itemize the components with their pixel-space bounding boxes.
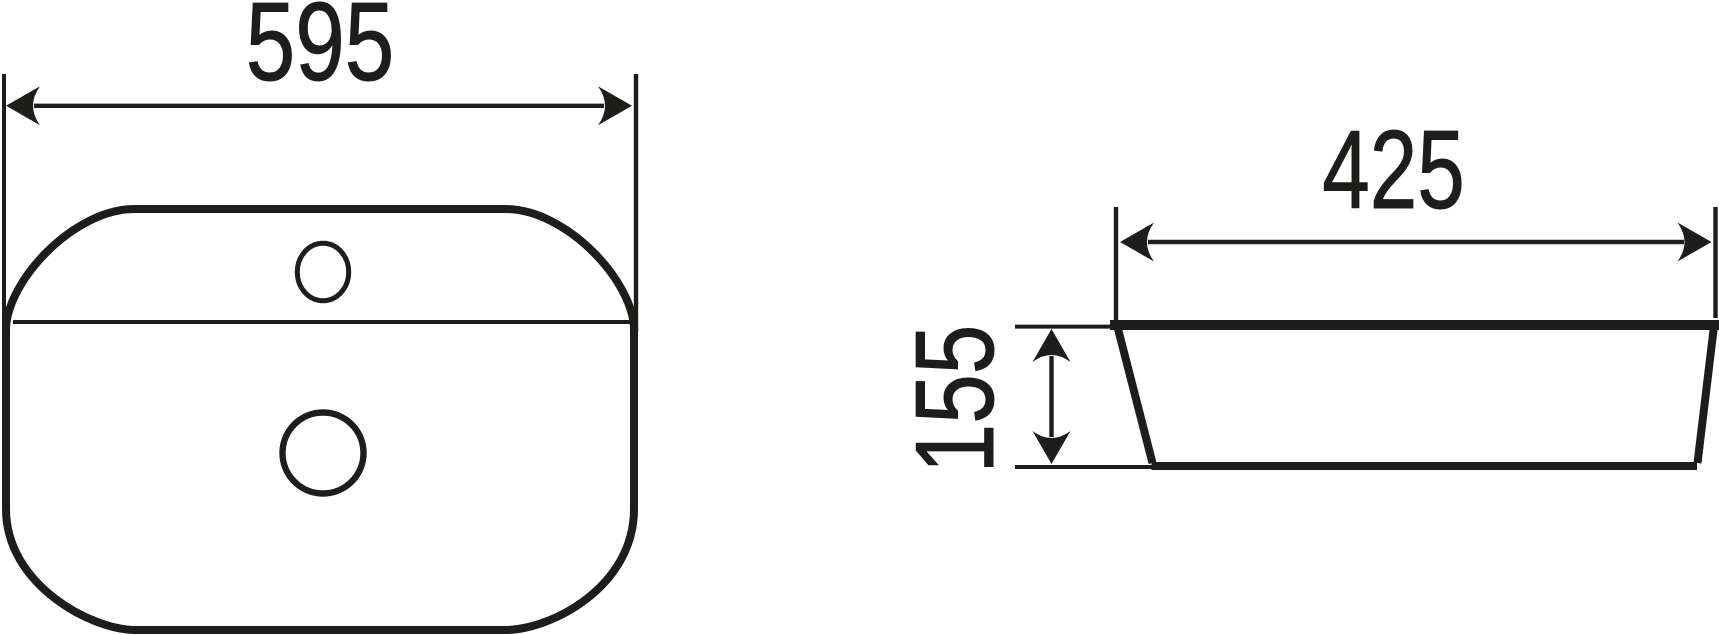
dimension line 155 [1049, 356, 1053, 437]
side view left slant edge [1117, 325, 1153, 463]
arrowhead left (425) [1120, 223, 1154, 262]
arrowhead down (155) [1033, 431, 1071, 464]
extension line right (425) [1713, 207, 1717, 318]
svg-text:595: 595 [246, 0, 395, 104]
arrowhead up (155) [1033, 329, 1071, 362]
extension line top (155) [1015, 325, 1116, 329]
svg-text:155: 155 [894, 325, 1018, 474]
dimension line 595 [34, 104, 604, 108]
arrowhead right (425) [1678, 223, 1712, 262]
svg-text:425: 425 [1322, 107, 1465, 231]
basin outline (top view) [6, 209, 634, 630]
side view top edge [1110, 320, 1719, 330]
arrowhead right (595) [598, 86, 632, 125]
extension line bottom (155) [1015, 465, 1158, 469]
side view bottom edge [1152, 462, 1698, 470]
arrowhead left (595) [6, 86, 40, 125]
extension line left (425) [1114, 207, 1118, 320]
extension line left (595) [2, 74, 6, 358]
side view right slant edge [1698, 326, 1715, 463]
dimension line 425 [1148, 240, 1684, 244]
extension line right (595) [634, 74, 638, 332]
inner rim line (top view) [13, 320, 634, 324]
drain hole [283, 413, 364, 494]
faucet hole [297, 243, 348, 300]
